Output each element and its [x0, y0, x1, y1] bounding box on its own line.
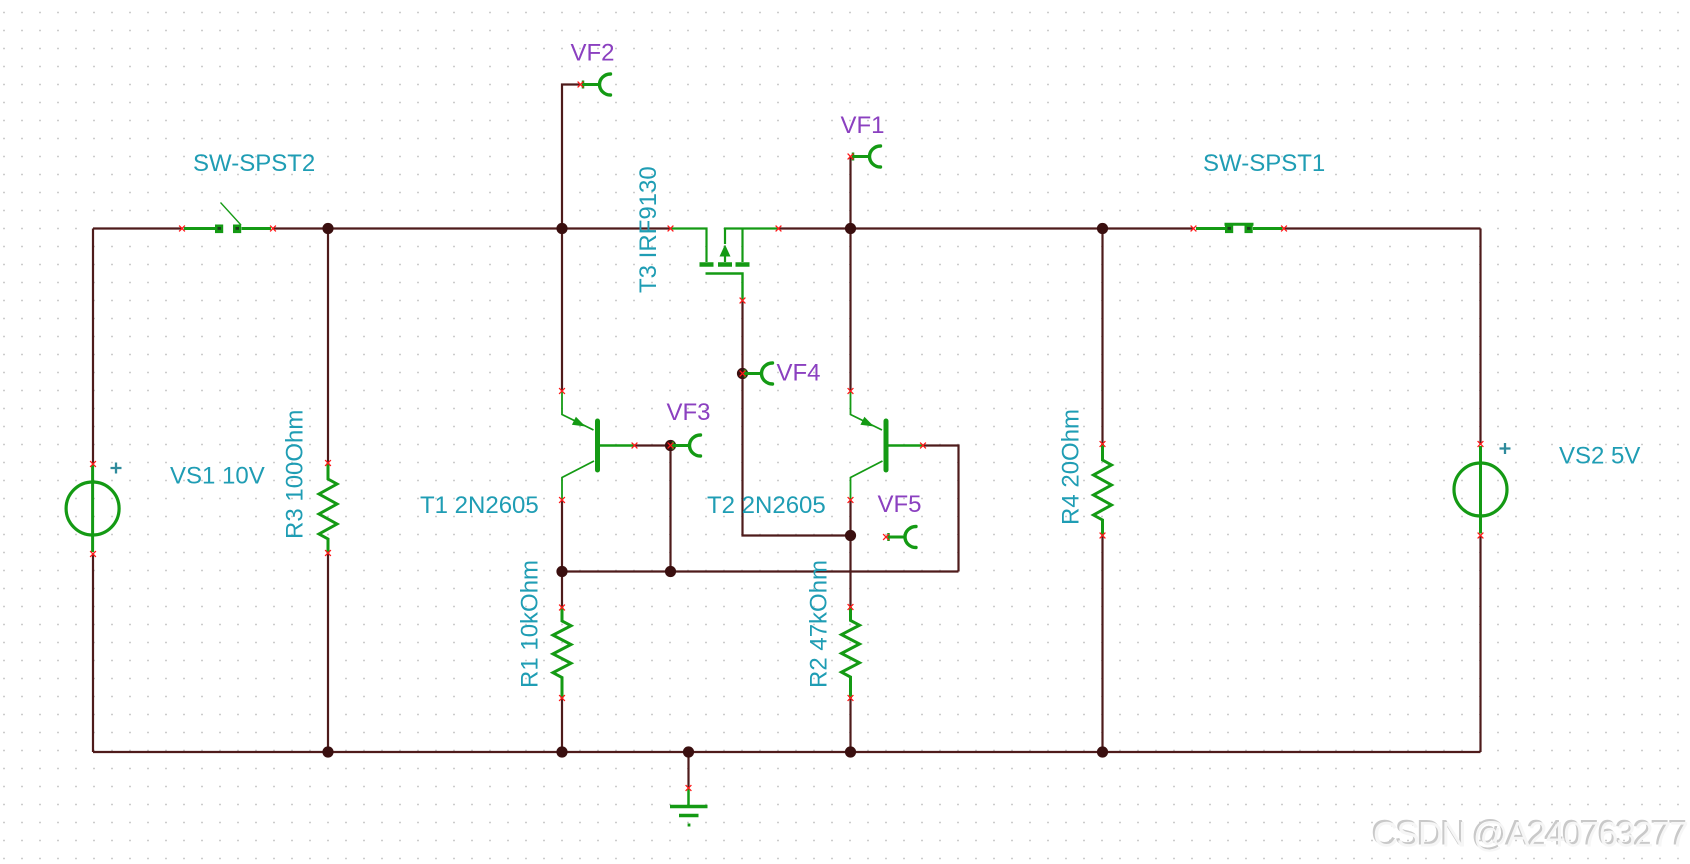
svg-text:T1 2N2605: T1 2N2605: [420, 492, 539, 519]
svg-text:VF1: VF1: [841, 112, 885, 139]
svg-text:VF5: VF5: [878, 491, 922, 518]
svg-text:T3 IRF9130: T3 IRF9130: [635, 166, 662, 293]
svg-text:CSDN @A240763277: CSDN @A240763277: [1373, 816, 1687, 855]
svg-text:VS1 10V: VS1 10V: [170, 463, 265, 490]
svg-text:SW-SPST1: SW-SPST1: [1203, 150, 1325, 177]
svg-text:VS2 5V: VS2 5V: [1559, 443, 1640, 470]
svg-text:VF4: VF4: [777, 360, 821, 387]
svg-text:R3 100Ohm: R3 100Ohm: [282, 410, 309, 539]
svg-text:R2 47kOhm: R2 47kOhm: [806, 560, 833, 688]
svg-text:VF2: VF2: [571, 40, 615, 67]
svg-text:SW-SPST2: SW-SPST2: [193, 150, 315, 177]
svg-text:T2 2N2605: T2 2N2605: [707, 492, 826, 519]
svg-text:VF3: VF3: [667, 399, 711, 426]
svg-text:R1 10kOhm: R1 10kOhm: [517, 560, 544, 688]
svg-text:R4 20Ohm: R4 20Ohm: [1058, 409, 1085, 525]
